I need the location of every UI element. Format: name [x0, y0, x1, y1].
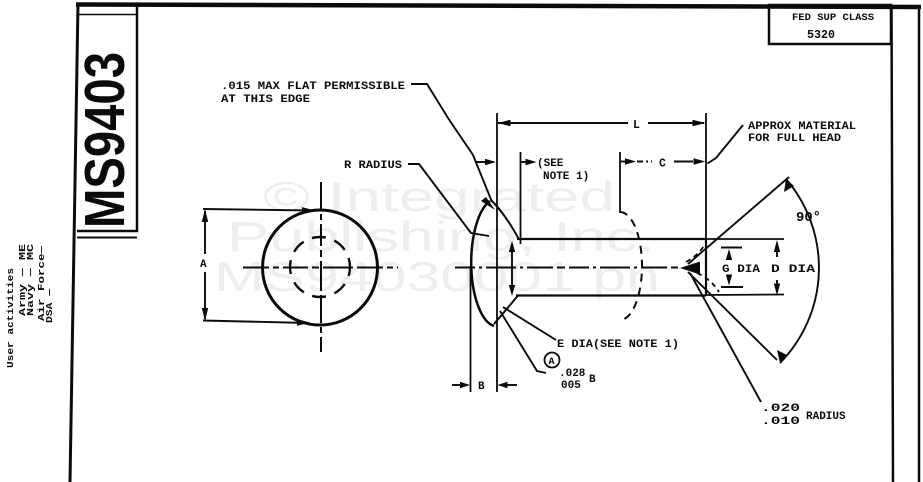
- head crown arc: [471, 201, 494, 326]
- dim A line: [202, 209, 208, 321]
- title block box MS9403: [77, 4, 137, 238]
- front view outer circle: [263, 210, 378, 325]
- extension line C left: [619, 152, 621, 213]
- apex arrow of 90 deg cone: [680, 262, 700, 275]
- svg-text:FED SUP CLASS: FED SUP CLASS: [792, 13, 874, 24]
- dim SEE NOTE 1 arrows: [476, 159, 537, 165]
- extension line shank top right: [706, 238, 784, 240]
- leader approx material: [708, 125, 744, 164]
- cone lower line: [688, 272, 777, 360]
- extension line L/C right: [705, 113, 707, 239]
- border top: [76, 5, 921, 8]
- svg-text:B: B: [589, 374, 596, 386]
- svg-text:.020: .020: [761, 403, 800, 415]
- dim A extension bottom: [203, 321, 308, 324]
- front view horizontal centerline: [243, 267, 398, 269]
- svg-text:C: C: [659, 158, 666, 171]
- shank end line: [705, 239, 707, 296]
- svg-text:DSA —: DSA —: [45, 288, 55, 323]
- datum circle A: [545, 353, 560, 369]
- leader datum tolerance: [500, 311, 546, 373]
- extension line shank bottom right: [706, 294, 784, 297]
- svg-text:A: A: [549, 357, 555, 368]
- svg-text:E DIA(SEE NOTE 1): E DIA(SEE NOTE 1): [557, 339, 679, 351]
- angle arc 90 deg: [777, 179, 819, 363]
- svg-text:.010: .010: [761, 416, 800, 428]
- dim E vertical: [509, 241, 515, 296]
- dashed fillet near shank end lower: [697, 273, 719, 292]
- svg-text:(SEE: (SEE: [537, 158, 564, 170]
- svg-text:.028: .028: [559, 368, 586, 380]
- dim B line: [452, 382, 517, 388]
- border right inner: [892, 5, 894, 482]
- fed sup class box: [769, 5, 891, 44]
- leader E dia: [503, 307, 556, 340]
- svg-text:G DIA: G DIA: [722, 264, 760, 276]
- head top fillet: [491, 200, 519, 240]
- extension line L left (through head): [496, 113, 498, 392]
- svg-text:R RADIUS: R RADIUS: [344, 160, 402, 172]
- svg-text:L: L: [633, 119, 640, 132]
- leader R radius: [408, 164, 489, 236]
- shank bottom line: [516, 294, 706, 296]
- svg-text:D DIA: D DIA: [771, 264, 816, 276]
- svg-text:RADIUS: RADIUS: [806, 411, 846, 423]
- svg-text:User activities: User activities: [6, 268, 16, 368]
- border left: [70, 3, 78, 482]
- svg-text:A: A: [200, 259, 207, 271]
- dim C line: [621, 158, 706, 164]
- svg-text:MS94030001 pn: MS94030001 pn: [214, 253, 660, 300]
- shank top line: [517, 238, 706, 240]
- svg-text:NOTE 1): NOTE 1): [543, 171, 589, 183]
- svg-text:005: 005: [561, 380, 581, 392]
- border right outer: [918, 6, 921, 482]
- svg-text:5320: 5320: [807, 28, 835, 42]
- leader 015 max flat: [411, 84, 495, 210]
- leader radius 020/010: [690, 273, 761, 402]
- front view inner hidden circle (dashed): [290, 237, 350, 297]
- svg-text:APPROX MATERIAL: APPROX MATERIAL: [748, 121, 856, 133]
- cone upper line: [688, 177, 789, 264]
- dashed formed head profile: [620, 212, 642, 320]
- dim L line: [498, 120, 706, 126]
- front view vertical centerline: [320, 182, 322, 352]
- head bottom fillet: [494, 296, 518, 325]
- extension line head-shank junction: [520, 152, 522, 244]
- svg-text:AT THIS EDGE: AT THIS EDGE: [221, 94, 310, 106]
- dim G ticks and arrows: [721, 248, 743, 288]
- svg-text:MS9403: MS9403: [73, 52, 137, 228]
- dim D arrows: [774, 240, 780, 296]
- side view centerline: [455, 267, 678, 269]
- svg-text:B: B: [478, 381, 485, 393]
- svg-text:90°: 90°: [796, 210, 821, 226]
- extension line B left: [470, 266, 472, 392]
- svg-text:.015 MAX FLAT PERMISSIBLE: .015 MAX FLAT PERMISSIBLE: [221, 81, 405, 93]
- dim A extension top: [203, 209, 313, 211]
- svg-text:Navy — MC: Navy — MC: [26, 243, 36, 316]
- dashed fillet near shank end upper: [686, 246, 704, 262]
- svg-text:FOR FULL HEAD: FOR FULL HEAD: [748, 133, 841, 145]
